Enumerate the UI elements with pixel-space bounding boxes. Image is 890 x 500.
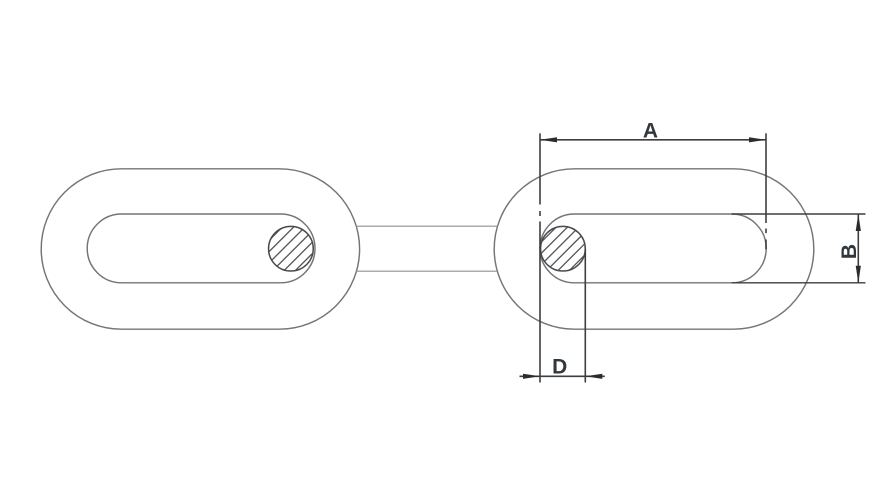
wire cross-section circle inside right link bbox=[541, 226, 586, 271]
dimension D line bbox=[520, 375, 605, 377]
dimension A arrowhead right bbox=[749, 137, 766, 142]
chain link L3 inner outline (right link opening) bbox=[540, 214, 766, 283]
dimension D arrowhead left (outside) bbox=[523, 374, 540, 379]
dimension B top extension line bbox=[732, 213, 866, 215]
chain link L3 outer outline (right link, face view) bbox=[494, 169, 814, 329]
dimension B arrowhead top bbox=[856, 214, 861, 231]
svg-text:A: A bbox=[643, 119, 658, 142]
dimension D arrowhead right (outside) bbox=[585, 374, 602, 379]
dimension B line bbox=[857, 214, 859, 283]
dimension D right extension line (x=585.3) bbox=[584, 249, 586, 383]
section hatch of middle link wire inside left link bbox=[231, 220, 346, 278]
wire cross-section circle inside left link bbox=[269, 226, 314, 271]
dimension A right extension / centerline (x=766) bbox=[765, 133, 767, 249]
section hatch of middle link wire inside right link bbox=[505, 220, 620, 278]
dimension A arrowhead left bbox=[540, 137, 557, 142]
dimension B bottom extension line bbox=[732, 282, 866, 284]
chain link L2 bottom edge (middle link, edge view) bbox=[356, 270, 498, 272]
dimension A line bbox=[540, 139, 766, 141]
dimension A left extension / centerline (x=540) bbox=[539, 133, 541, 382]
chain link L2 top edge (middle link, edge view) bbox=[356, 225, 498, 227]
dimension B arrowhead bottom bbox=[856, 266, 861, 283]
svg-text:D: D bbox=[552, 355, 567, 378]
svg-text:B: B bbox=[838, 244, 861, 259]
chain link L1 outer outline (left link, face view) bbox=[41, 169, 359, 329]
chain link L1 inner outline (left link opening) bbox=[87, 214, 315, 283]
